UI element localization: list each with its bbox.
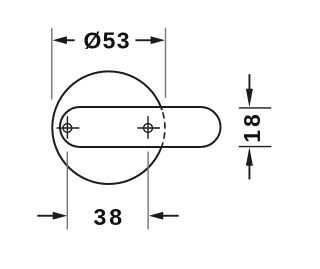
hole right: crosshair vertical	[147, 116, 149, 139]
hole left: circle	[63, 124, 72, 133]
dim Ø53: left arrow	[53, 36, 75, 44]
dim 38: left arrow	[37, 212, 67, 220]
dim 38: right extension line	[147, 152, 149, 230]
hole left: crosshair horizontal	[57, 127, 80, 129]
dim 38: right arrow	[149, 212, 179, 220]
dim 18: top arrow	[246, 74, 253, 107]
dim Ø53: left extension line	[51, 28, 53, 100]
dim 38: left extension line	[66, 152, 68, 230]
hole right: circle	[144, 124, 153, 133]
dim 18: top tick	[239, 107, 271, 109]
svg-text:Ø53: Ø53	[84, 27, 130, 53]
slot (rounded mounting plate)	[60, 107, 221, 147]
solid stub of circle just below slot top edge	[161, 107, 162, 110]
dim 18: bottom tick	[239, 146, 271, 148]
circle Ø53 outline	[52, 71, 165, 184]
dim 18: bottom arrow	[246, 147, 253, 179]
dashed hidden arc of circle inside slot	[162, 112, 165, 147]
dim Ø53: right arrow	[135, 36, 165, 44]
hole left: crosshair vertical	[66, 116, 68, 139]
hole right: crosshair horizontal	[137, 127, 160, 129]
dim Ø53: right extension line	[165, 28, 167, 98]
